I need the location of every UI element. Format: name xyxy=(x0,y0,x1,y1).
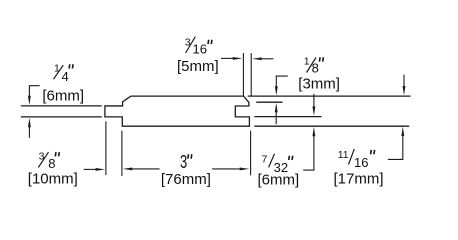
board profile outline xyxy=(105,96,250,126)
dim 1/4 leader bracket xyxy=(29,86,39,96)
svg-text:[76mm]: [76mm] xyxy=(161,171,211,188)
dim 7/32 up arrowhead xyxy=(312,127,315,136)
dim 1/8 up-arrow tail xyxy=(275,112,277,125)
dim 3in right-pointing arrowhead xyxy=(240,167,250,170)
dim 11/16 up arrowhead xyxy=(401,127,404,136)
dim 3in extension line right xyxy=(250,131,252,176)
svg-text:[6mm]: [6mm] xyxy=(258,172,300,189)
svg-text:7: 7 xyxy=(262,153,268,165)
label 1/8 slash xyxy=(307,58,317,73)
dim 3/8 / 3in shared extension line xyxy=(121,131,123,176)
svg-text:[17mm]: [17mm] xyxy=(334,171,384,188)
dim 3in line left segment xyxy=(132,168,160,170)
svg-text:3: 3 xyxy=(39,150,45,162)
svg-text:[5mm]: [5mm] xyxy=(177,58,219,75)
dim 11/16 up-arrow leader xyxy=(388,135,403,159)
dim 1/8 up arrowhead xyxy=(275,103,278,112)
adjacent tongue line bottom-left xyxy=(22,116,102,118)
dim 1/4 up-arrow tail xyxy=(28,127,30,138)
dim 7/32 down-arrow tail xyxy=(313,94,315,107)
svg-text:16: 16 xyxy=(354,155,368,170)
adjacent board bottom line right xyxy=(255,125,409,127)
dim 3/16 extension line left xyxy=(242,53,244,96)
svg-text:16: 16 xyxy=(193,42,207,57)
dim 11/16 down arrowhead xyxy=(403,86,406,95)
label 7/32 slash xyxy=(269,154,275,168)
dim 1/8 leader bracket xyxy=(276,76,288,87)
adjacent board tongue-top line right xyxy=(255,116,321,118)
svg-text:11: 11 xyxy=(338,149,349,161)
dim 3/16 left-pointing arrowhead xyxy=(252,57,261,60)
dim 3/8 extension line left xyxy=(105,121,107,175)
svg-text:1: 1 xyxy=(304,56,310,68)
svg-text:[10mm]: [10mm] xyxy=(28,171,78,188)
dim 3/16 extension line right xyxy=(250,53,252,96)
label 11/16 slash xyxy=(349,149,355,165)
adjacent board top surface right xyxy=(248,95,410,97)
svg-text:4: 4 xyxy=(62,69,69,84)
label 3/8 slash xyxy=(38,152,48,167)
dim 3in left-pointing arrowhead xyxy=(123,167,133,170)
dim 3/16 right-pointing arrowhead xyxy=(233,57,243,60)
svg-text:8: 8 xyxy=(48,156,55,171)
dim 3/16 right arrow tail xyxy=(262,58,273,60)
label 1/4 slash xyxy=(54,65,64,79)
dim 1/4 down arrowhead xyxy=(28,96,31,105)
dim 7/32 down arrowhead xyxy=(312,107,315,116)
dim 3/8 arrow tail xyxy=(84,168,96,170)
dim 3/8 right-pointing arrowhead xyxy=(96,168,106,171)
adjacent tongue line top-left xyxy=(22,105,102,107)
dim 3in line right segment xyxy=(212,168,240,170)
label 3/16 slash xyxy=(186,37,196,53)
dim 11/16 down-arrow tail xyxy=(403,75,405,87)
adjacent board chamfer shoulder right xyxy=(257,101,282,103)
dim 3/16 left arrow tail xyxy=(221,57,234,59)
dim 1/8 down arrowhead xyxy=(275,86,278,95)
dim 7/32 up-arrow leader xyxy=(303,136,314,171)
svg-text:1: 1 xyxy=(54,63,60,75)
svg-text:3: 3 xyxy=(180,151,187,172)
svg-text:[6mm]: [6mm] xyxy=(42,88,84,105)
svg-text:[3mm]: [3mm] xyxy=(298,75,340,92)
dim 1/4 up arrowhead xyxy=(28,118,31,127)
